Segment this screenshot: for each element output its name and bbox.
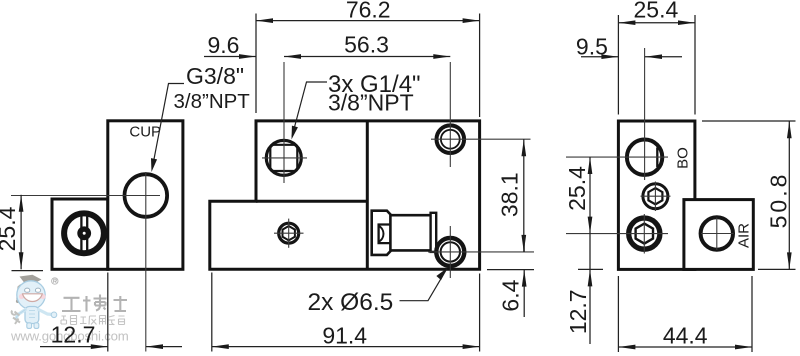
- leader 3x G1/4: [292, 82, 327, 137]
- middle hex hole hexagon: [648, 188, 662, 204]
- bottom mounting hole inner: [441, 242, 460, 261]
- right view tall block: [618, 121, 695, 269]
- dimension 12.7 left: [40, 273, 182, 352]
- dimension 76.2 line: [256, 14, 480, 118]
- dimension 9.5: [581, 56, 682, 58]
- AIR hole circle: [701, 217, 733, 249]
- svg-text:G3/8": G3/8": [186, 63, 244, 89]
- G1/4 port square: [270, 145, 297, 171]
- CUP port circle: [125, 174, 168, 217]
- hex socket centerlines: [274, 232, 304, 234]
- svg-text:12.7: 12.7: [51, 322, 96, 348]
- connector flange: [431, 213, 437, 252]
- right view bottom left extension: [578, 268, 603, 270]
- dimension 56.3 line: [284, 56, 450, 58]
- bottom hex hole ring: [629, 218, 660, 249]
- leader G3/8: [152, 84, 184, 169]
- svg-text:AIR: AIR: [735, 223, 752, 248]
- dimension 76.2 arrows: [256, 18, 480, 23]
- svg-text:9.6: 9.6: [208, 32, 240, 58]
- svg-text:44.4: 44.4: [663, 323, 708, 349]
- top mounting hole centerlines: [449, 62, 451, 167]
- svg-text:25.4: 25.4: [0, 206, 20, 251]
- middle hex hole centerlines: [641, 195, 671, 197]
- hex socket hexagon: [283, 226, 295, 240]
- port horizontal centerline: [262, 157, 307, 159]
- svg-text:3/8”NPT: 3/8”NPT: [174, 90, 251, 113]
- svg-text:38.1: 38.1: [497, 172, 523, 217]
- right view AIR block: [684, 200, 753, 270]
- watermark mascot logo: [12, 275, 57, 329]
- dimension 91.4: [212, 273, 480, 352]
- middle view body outline: [210, 121, 480, 269]
- bottom mounting hole outer: [436, 238, 464, 266]
- bottom hex hole hexagon: [636, 224, 653, 244]
- dimension 38.1: [523, 139, 525, 252]
- BO hole circle: [627, 140, 662, 175]
- connector collar: [372, 211, 391, 255]
- screw slot bars: [80, 215, 82, 252]
- svg-text:56.3: 56.3: [344, 32, 389, 58]
- watermark text smart factory (small Chinese strokes): [61, 316, 125, 325]
- left view small block: [52, 199, 108, 269]
- bottom hex hole centerlines: [566, 233, 668, 235]
- CUP horizontal centerline: [11, 195, 160, 197]
- watermark registered mark: [52, 278, 58, 284]
- dimension 25.4 left: [12, 195, 44, 271]
- svg-text:25.4: 25.4: [634, 0, 679, 23]
- dimension 9.6 arrow: [239, 54, 256, 59]
- dimension 6.4: [487, 236, 534, 317]
- BO hole centerlines: [566, 156, 668, 158]
- svg-text:2x Ø6.5: 2x Ø6.5: [308, 289, 394, 316]
- screw center dot: [77, 226, 91, 240]
- AIR hole centerlines: [701, 233, 734, 235]
- svg-text:91.4: 91.4: [322, 323, 367, 349]
- BO hole chord: [656, 148, 658, 168]
- bottom mounting hole centerlines: [428, 251, 534, 253]
- svg-text:76.2: 76.2: [346, 0, 391, 23]
- svg-text:12.7: 12.7: [565, 289, 591, 334]
- svg-text:3/8”NPT: 3/8”NPT: [328, 90, 414, 116]
- connector collar notch arc: [379, 226, 384, 242]
- leader 2x 6.5: [400, 269, 447, 301]
- screw port ring: [64, 213, 104, 253]
- connector barrel: [390, 215, 430, 250]
- connector collar notch: [379, 225, 391, 244]
- port vertical centerline / 56.3 extension: [283, 62, 285, 183]
- svg-text:BO: BO: [675, 147, 692, 169]
- top mounting hole inner: [441, 130, 460, 149]
- dimension 25.4 right view: [589, 157, 591, 344]
- svg-text:25.4: 25.4: [564, 166, 590, 211]
- svg-text:9.5: 9.5: [576, 34, 608, 60]
- dimension 50.8: [702, 121, 796, 269]
- dimension 25.4 top right view: [618, 15, 695, 115]
- middle view internal step line: [256, 200, 367, 203]
- middle view internal vertical edge: [366, 121, 369, 269]
- dimension 9.6 line: [204, 56, 256, 58]
- hex socket circle: [279, 223, 299, 243]
- svg-text:CUP: CUP: [129, 124, 161, 141]
- svg-text:6.4: 6.4: [498, 279, 524, 311]
- dimension 56.3 arrows: [284, 54, 450, 59]
- dimension 44.4: [618, 276, 752, 352]
- CUP vertical centerline: [145, 172, 147, 352]
- svg-text:50.8: 50.8: [766, 172, 792, 229]
- top mounting hole outer: [437, 125, 465, 153]
- G1/4 port circle: [266, 140, 301, 175]
- watermark text gongboshi (Chinese strokes): [62, 295, 127, 312]
- left view tall block: [108, 121, 183, 269]
- middle hex hole circle: [643, 184, 668, 209]
